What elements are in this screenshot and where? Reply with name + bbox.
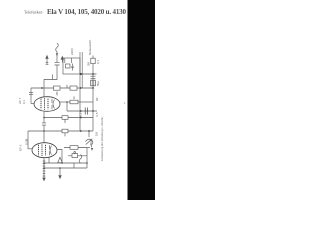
resistor R4 [54, 86, 61, 90]
switch/jack cluster [86, 131, 94, 151]
svg-text:220V: 220V [70, 48, 74, 55]
junction dots [41, 73, 94, 169]
wire rail [80, 73, 97, 75]
stub [66, 85, 68, 88]
wire [66, 102, 68, 111]
wire [92, 58, 94, 131]
stub pin [64, 58, 66, 63]
resistor R1 (wavy dropper top) [56, 43, 59, 52]
wire grid lead [31, 103, 34, 105]
svg-text:Fortsetzung der Schaltung s. A: Fortsetzung der Schaltung s. Abschn. [100, 116, 104, 161]
svg-text:50µ: 50µ [89, 140, 93, 145]
wire bus [79, 88, 81, 131]
wire [28, 131, 32, 149]
cathode lead [48, 157, 50, 163]
svg-text:1M: 1M [95, 131, 99, 136]
tube V2 [32, 143, 57, 158]
micro labels (rotated) [18, 39, 104, 161]
wire rail input2 [28, 130, 93, 132]
wire [86, 148, 88, 169]
resistor R3 [91, 58, 95, 63]
svg-text:50µ: 50µ [96, 81, 100, 86]
wire anode lead [57, 150, 62, 164]
stub pin [71, 58, 73, 63]
tube V1 [34, 97, 60, 112]
svg-text:0,5: 0,5 [95, 112, 99, 116]
wire [43, 111, 45, 118]
terminal arrow A3 [59, 168, 61, 178]
resistor R9 [64, 146, 87, 150]
wire top rail [31, 87, 93, 89]
svg-text:10: 10 [72, 96, 76, 100]
capacitor C3 [91, 76, 96, 78]
svg-text:Ela V 104, 105, 4020 u. 4130: Ela V 104, 105, 4020 u. 4130 [47, 8, 127, 16]
wire [87, 147, 90, 149]
arrowhead down on C1 [56, 53, 58, 56]
wire [56, 52, 58, 63]
screened lead (double line) [80, 52, 82, 88]
capacitor C1 [55, 63, 60, 65]
svg-text:0,1: 0,1 [96, 60, 100, 64]
resistor R6 [70, 100, 78, 104]
stub [52, 75, 54, 80]
capacitor C8 (with dot) [72, 152, 78, 158]
svg-text:2M: 2M [55, 91, 59, 96]
wire [78, 101, 93, 103]
chassis triangle [58, 157, 63, 163]
speck [124, 102, 126, 104]
capacitor C7 [42, 118, 46, 143]
resistor R5 [70, 86, 77, 90]
capacitor C2 (inside box) [71, 64, 73, 71]
wire rail [67, 110, 97, 112]
svg-text:AF 7: AF 7 [18, 97, 22, 104]
capacitor C6 (series) [85, 108, 87, 115]
resistor R7 [62, 116, 68, 123]
title [24, 8, 127, 16]
svg-text:Netzanschl.: Netzanschl. [88, 39, 92, 55]
svg-text:0,1: 0,1 [79, 112, 83, 116]
box U1 (tone network) [63, 58, 80, 74]
wire rail input1 [44, 117, 93, 119]
resistor R2 (inside box) [66, 64, 71, 68]
terminal arrow A2 [61, 59, 63, 63]
capacitor C4 (electrolytic block) [91, 80, 96, 86]
wire [44, 65, 57, 97]
wire anode lead [60, 101, 70, 103]
wire [73, 163, 75, 168]
wire [30, 88, 32, 104]
svg-text:Telefunken: Telefunken [24, 10, 43, 14]
svg-text:EF 6: EF 6 [19, 144, 23, 151]
wire rail [44, 162, 87, 164]
wire [68, 155, 87, 157]
svg-text:NF: NF [95, 97, 99, 101]
terminal arrow A1 [46, 57, 48, 64]
resistor R8 [62, 129, 68, 136]
black margin band [128, 0, 156, 200]
wire rail [44, 167, 87, 169]
resistor R10 (wavy) [79, 155, 82, 164]
capacitor C5 [29, 92, 33, 94]
svg-text:0,5M: 0,5M [25, 138, 29, 145]
svg-text:0,1: 0,1 [22, 100, 26, 104]
stub [92, 56, 94, 59]
heater/cathode ticked line [43, 158, 46, 181]
svg-text:2M: 2M [86, 61, 90, 66]
